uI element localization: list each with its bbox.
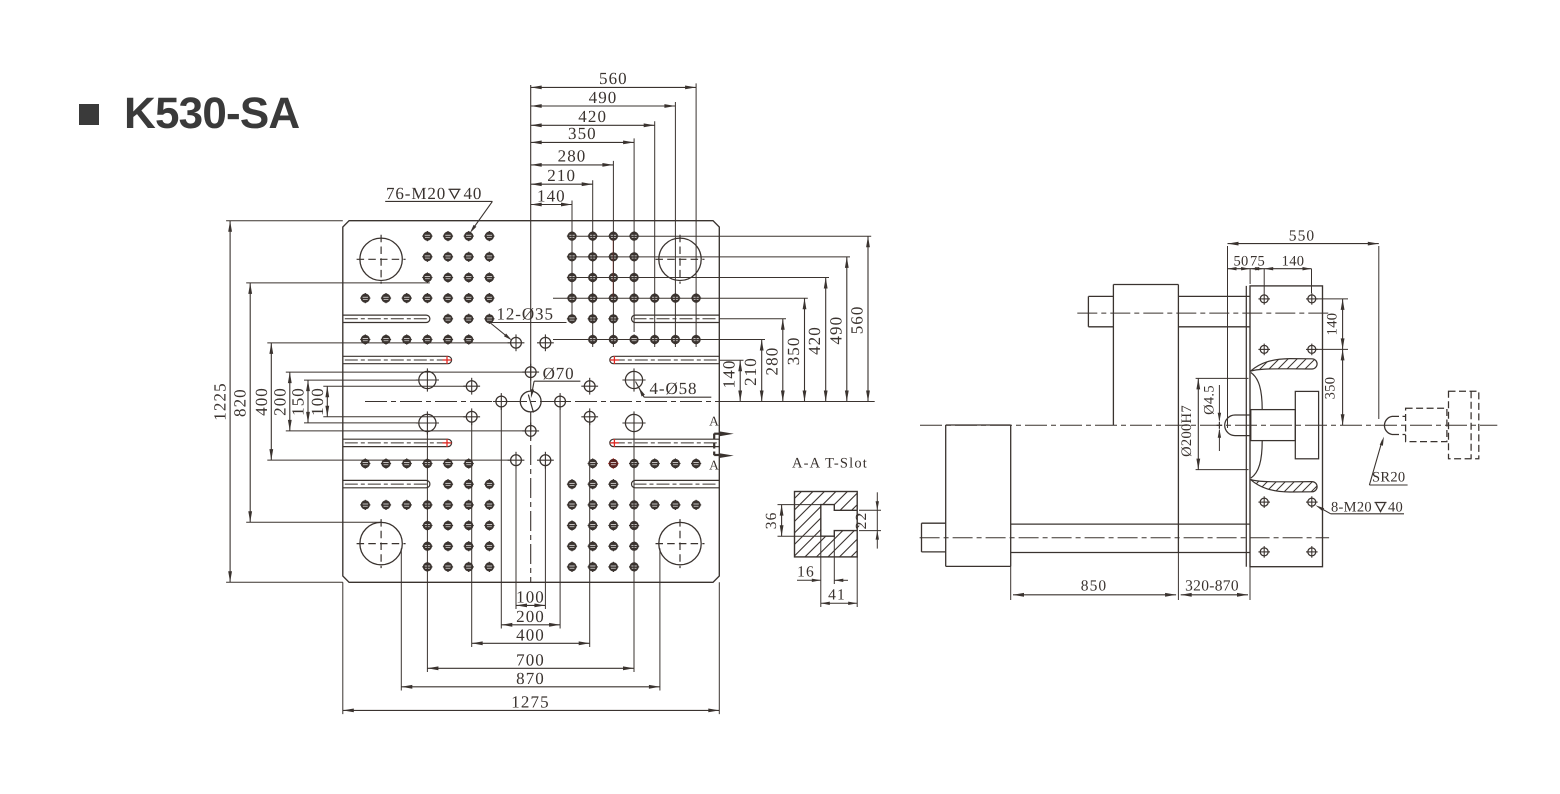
svg-text:150: 150 xyxy=(289,387,308,416)
dimension 210 right xyxy=(741,340,763,402)
dimension 210 top xyxy=(531,166,593,186)
side dimension d200H7 xyxy=(1179,378,1249,469)
tie-bar hole bottom-left xyxy=(357,519,406,568)
12x d35 hole ring xyxy=(463,334,598,468)
svg-text:A: A xyxy=(709,458,720,473)
locating ring xyxy=(1295,391,1318,458)
svg-text:140: 140 xyxy=(720,359,739,388)
sprue bushing nose xyxy=(1225,415,1251,436)
svg-text:100: 100 xyxy=(308,387,327,416)
svg-text:40: 40 xyxy=(464,184,483,203)
vertical centerline xyxy=(530,85,532,582)
dimension 870 bottom xyxy=(401,669,660,689)
red extension segment col+280 xyxy=(612,240,614,297)
svg-text:350: 350 xyxy=(1323,377,1339,400)
svg-text:490: 490 xyxy=(826,316,845,345)
label 4-d58 with leader xyxy=(636,379,712,398)
right dimension extension lines xyxy=(553,236,871,360)
svg-text:1275: 1275 xyxy=(511,693,549,712)
platen plate outline xyxy=(343,221,720,583)
T-slot upper-right long with red tip xyxy=(610,356,720,364)
dimension 350 top xyxy=(531,124,634,144)
svg-text:K530-SA: K530-SA xyxy=(124,89,299,138)
detail dimension 41 xyxy=(821,557,857,607)
title text K530-SA xyxy=(124,89,299,138)
bottom dimension extension lines xyxy=(343,407,720,714)
purge nozzle dashed xyxy=(1384,391,1478,459)
svg-text:12-Ø35: 12-Ø35 xyxy=(497,305,554,324)
dimension 1275 bottom xyxy=(343,693,720,713)
dimension 350 right xyxy=(784,298,806,401)
svg-text:820: 820 xyxy=(231,388,250,417)
side upper-left plate xyxy=(1113,285,1178,553)
M20 bolt hole grid top-left quadrant xyxy=(360,231,494,345)
svg-text:40: 40 xyxy=(1388,499,1403,515)
section A-A cut marks xyxy=(709,414,734,473)
dimension 560 top xyxy=(531,69,696,89)
side lower axis xyxy=(920,537,1330,539)
svg-text:400: 400 xyxy=(516,626,545,645)
dimension 400 bottom xyxy=(472,626,590,646)
svg-text:350: 350 xyxy=(784,336,803,365)
top dimension extension lines xyxy=(572,83,696,347)
detail dimension 22 xyxy=(853,492,881,548)
label 8-M20 depth 40 with leader xyxy=(1316,499,1405,515)
side lower barrel xyxy=(1011,524,1250,552)
dimension 200 left xyxy=(270,372,291,431)
svg-text:A: A xyxy=(709,414,720,429)
center d70 hole xyxy=(520,391,541,412)
svg-text:350: 350 xyxy=(568,124,597,143)
tie-bar hole top-right xyxy=(656,235,705,284)
side platen bolt holes 8-M20 xyxy=(1258,293,1317,558)
T-slot upper-left short xyxy=(343,315,430,322)
left dimension extension lines xyxy=(226,221,525,583)
svg-text:560: 560 xyxy=(848,305,867,334)
svg-text:A-A T-Slot: A-A T-Slot xyxy=(792,456,868,472)
dimension 140 top xyxy=(531,186,572,206)
T-slot upper-right short xyxy=(632,315,720,322)
svg-text:560: 560 xyxy=(599,69,628,88)
svg-text:75: 75 xyxy=(1250,253,1265,269)
M20 bolt hole grid bottom-right quadrant xyxy=(567,458,701,572)
svg-text:210: 210 xyxy=(547,166,576,185)
horizontal centerline xyxy=(365,401,875,403)
M20 bolt hole grid top-right quadrant xyxy=(567,231,701,345)
svg-text:210: 210 xyxy=(741,357,760,386)
svg-text:870: 870 xyxy=(516,669,545,688)
sprue pocket walls xyxy=(1251,373,1262,479)
svg-text:200: 200 xyxy=(270,387,289,416)
side dimension 140 bolt spacing xyxy=(1317,299,1349,350)
svg-text:SR20: SR20 xyxy=(1372,470,1405,486)
svg-text:700: 700 xyxy=(516,651,545,670)
sprue bushing body xyxy=(1251,410,1296,441)
svg-text:320-870: 320-870 xyxy=(1185,578,1239,595)
A-A T-Slot label xyxy=(792,456,868,472)
svg-text:850: 850 xyxy=(1081,578,1108,595)
dimension 200 bottom xyxy=(501,607,560,627)
label SR20 with leader xyxy=(1369,437,1407,486)
dimension 100 bottom xyxy=(516,588,545,608)
tie-bar hole bottom-right xyxy=(656,519,705,568)
red highlighted hole col+280 row+210 xyxy=(608,458,618,468)
side stationary platen xyxy=(1246,286,1322,567)
dimension 150 left xyxy=(289,380,310,423)
svg-text:Ø4.5: Ø4.5 xyxy=(1202,385,1218,415)
svg-text:100: 100 xyxy=(516,588,545,607)
dimension 700 bottom xyxy=(427,651,634,671)
label 76-M20 depth 40 with leader xyxy=(385,184,492,233)
dimension 1225 left xyxy=(211,221,232,583)
dimension 490 top xyxy=(531,88,676,108)
T-slot upper-left long with red tip xyxy=(343,356,452,364)
label d70 with leader xyxy=(528,364,580,413)
dimension 280 top xyxy=(531,147,614,167)
svg-text:Ø70: Ø70 xyxy=(543,364,575,383)
side lower-left nub xyxy=(922,523,946,552)
side upper axis xyxy=(1077,312,1329,314)
svg-text:76-M20: 76-M20 xyxy=(386,184,446,203)
T-slot lower-left long with red tip xyxy=(343,439,452,447)
svg-text:1225: 1225 xyxy=(211,382,230,420)
side dimensions 50 75 140 top xyxy=(1228,253,1312,293)
dimension 560 right xyxy=(848,236,870,401)
dimension 820 left xyxy=(231,283,252,522)
svg-text:400: 400 xyxy=(252,387,271,416)
M20 bolt hole grid bottom-left quadrant xyxy=(360,458,494,572)
title block square bullet xyxy=(79,104,99,125)
label 12-d35 with leader xyxy=(490,305,567,341)
svg-text:420: 420 xyxy=(805,326,824,355)
dimension 420 top xyxy=(531,107,655,127)
4x d58 holes xyxy=(416,368,646,434)
T-slot lower-right long with red tip xyxy=(610,439,720,447)
svg-text:8-M20: 8-M20 xyxy=(1331,499,1372,515)
side dimensions 850 and 320-870 xyxy=(1011,553,1250,601)
T-slot lower-left short xyxy=(343,480,430,487)
dimension 400 left xyxy=(252,343,273,460)
svg-text:50: 50 xyxy=(1233,253,1248,269)
detail dimension 16 xyxy=(797,536,848,584)
side upper-left nub xyxy=(1088,296,1113,326)
svg-text:280: 280 xyxy=(762,347,781,376)
dimension 420 right xyxy=(805,278,827,402)
dimension 280 right xyxy=(762,319,784,402)
svg-text:140: 140 xyxy=(1282,253,1305,269)
sprue orifice tick xyxy=(1217,422,1223,429)
svg-text:140: 140 xyxy=(537,186,566,205)
dimension 140 right xyxy=(720,359,742,401)
svg-text:22: 22 xyxy=(853,512,870,530)
svg-text:41: 41 xyxy=(828,587,846,604)
T-slot section block with hatching xyxy=(725,491,918,557)
side main axis xyxy=(920,424,1497,426)
side dimension d4.5 xyxy=(1202,385,1222,451)
svg-text:550: 550 xyxy=(1289,227,1316,244)
svg-text:280: 280 xyxy=(558,147,587,166)
svg-text:36: 36 xyxy=(763,512,780,530)
T-slot lower-right short xyxy=(632,480,720,487)
svg-text:140: 140 xyxy=(1325,313,1341,336)
svg-text:4-Ø58: 4-Ø58 xyxy=(650,379,698,398)
side upper tie bar xyxy=(1178,296,1250,326)
dimension 100 left xyxy=(308,386,329,417)
side dimension 550 xyxy=(1228,227,1379,428)
svg-text:16: 16 xyxy=(797,564,815,581)
svg-text:Ø200H7: Ø200H7 xyxy=(1179,405,1195,457)
tie-bar hole top-left xyxy=(357,235,406,284)
side dimension 350 xyxy=(1323,349,1345,425)
side lower-left block xyxy=(946,425,1011,566)
detail dimension 36 xyxy=(763,505,821,537)
svg-text:490: 490 xyxy=(589,88,618,107)
svg-text:200: 200 xyxy=(516,607,545,626)
dimension 490 right xyxy=(826,257,848,402)
right dims center extension line xyxy=(719,401,874,403)
sprue pocket hatched rings xyxy=(1240,340,1361,500)
